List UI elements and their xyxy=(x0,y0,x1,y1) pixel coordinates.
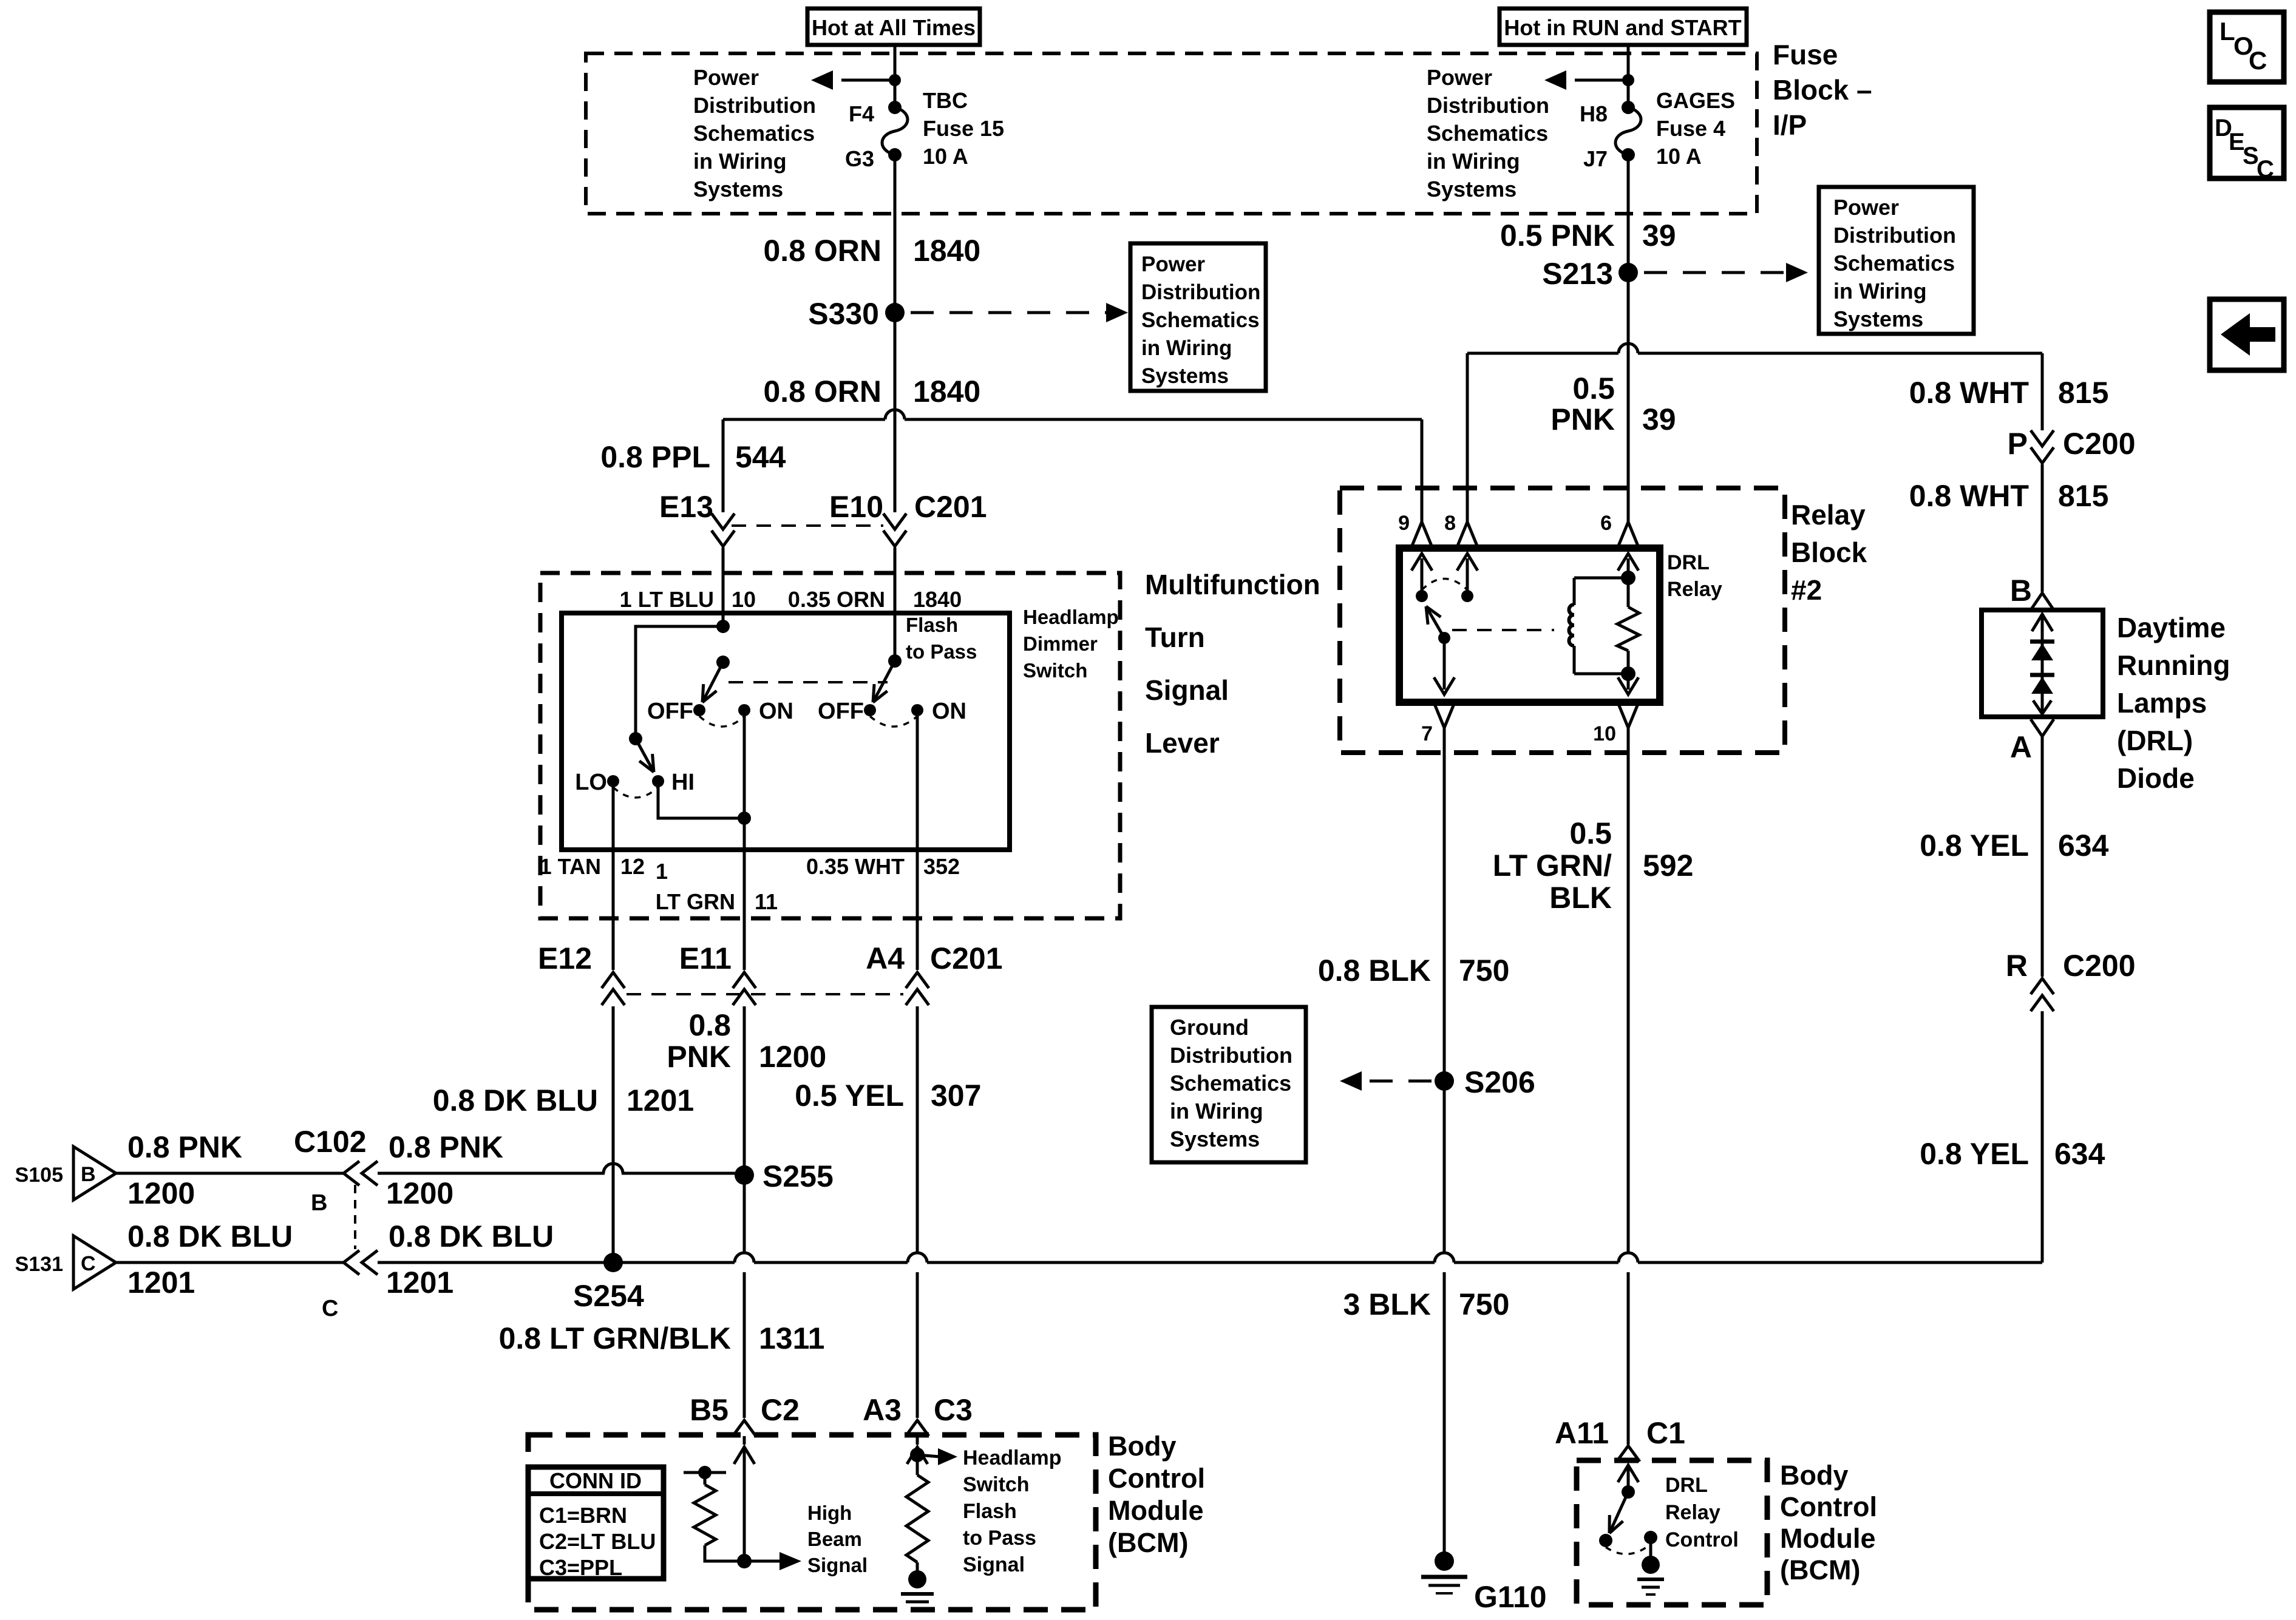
svg-text:0.8 YEL: 0.8 YEL xyxy=(1920,829,2029,863)
svg-text:352: 352 xyxy=(923,854,960,879)
svg-text:Distribution: Distribution xyxy=(1427,93,1549,118)
svg-text:Dimmer: Dimmer xyxy=(1023,632,1098,655)
svg-text:Control: Control xyxy=(1665,1528,1739,1551)
svg-text:S213: S213 xyxy=(1542,257,1613,291)
svg-text:Signal: Signal xyxy=(963,1553,1025,1576)
svg-text:0.5: 0.5 xyxy=(1572,371,1615,405)
svg-text:LO: LO xyxy=(575,770,607,795)
svg-text:J7: J7 xyxy=(1583,146,1608,171)
svg-text:0.8 PPL: 0.8 PPL xyxy=(600,440,710,474)
svg-text:LT GRN/: LT GRN/ xyxy=(1493,849,1612,883)
svg-text:Switch: Switch xyxy=(1023,659,1087,682)
svg-text:750: 750 xyxy=(1459,954,1509,988)
svg-text:C200: C200 xyxy=(2063,427,2136,461)
svg-text:B5: B5 xyxy=(690,1393,729,1427)
svg-text:0.8 DK BLU: 0.8 DK BLU xyxy=(433,1083,598,1117)
svg-text:Headlamp: Headlamp xyxy=(1023,606,1119,628)
svg-text:Lever: Lever xyxy=(1145,727,1220,759)
svg-text:C: C xyxy=(81,1252,96,1275)
svg-text:Power: Power xyxy=(1833,195,1899,220)
svg-text:Block –: Block – xyxy=(1773,74,1872,106)
svg-text:F4: F4 xyxy=(849,101,874,126)
svg-text:1200: 1200 xyxy=(386,1176,453,1210)
svg-text:A11: A11 xyxy=(1555,1416,1609,1450)
svg-text:S206: S206 xyxy=(1464,1065,1535,1099)
svg-text:B: B xyxy=(311,1190,327,1216)
svg-text:10: 10 xyxy=(732,587,756,612)
svg-text:Switch: Switch xyxy=(963,1473,1030,1496)
svg-text:Distribution: Distribution xyxy=(1141,280,1260,304)
svg-text:Flash: Flash xyxy=(963,1500,1017,1523)
svg-text:L: L xyxy=(2220,17,2235,46)
svg-text:TBC: TBC xyxy=(923,88,968,113)
svg-text:E13: E13 xyxy=(659,490,713,524)
svg-text:1 TAN: 1 TAN xyxy=(540,854,601,879)
svg-text:Schematics: Schematics xyxy=(1170,1071,1291,1096)
svg-text:1840: 1840 xyxy=(913,374,980,408)
svg-text:1200: 1200 xyxy=(759,1040,826,1074)
svg-text:Systems: Systems xyxy=(693,177,783,202)
svg-text:Relay: Relay xyxy=(1665,1501,1720,1524)
svg-text:OFF: OFF xyxy=(818,699,864,724)
svg-text:1311: 1311 xyxy=(759,1321,824,1355)
svg-text:DRL: DRL xyxy=(1665,1474,1708,1497)
svg-text:PNK: PNK xyxy=(667,1040,731,1074)
svg-text:Control: Control xyxy=(1108,1463,1205,1494)
svg-text:C: C xyxy=(322,1296,338,1321)
svg-text:3 BLK: 3 BLK xyxy=(1343,1287,1431,1321)
svg-text:0.8 WHT: 0.8 WHT xyxy=(1909,376,2029,410)
svg-text:815: 815 xyxy=(2058,479,2108,513)
svg-text:1201: 1201 xyxy=(627,1083,694,1117)
svg-text:OFF: OFF xyxy=(647,699,693,724)
svg-text:C200: C200 xyxy=(2063,949,2136,983)
svg-text:Hot in RUN and START: Hot in RUN and START xyxy=(1504,15,1741,40)
svg-text:C2=LT BLU: C2=LT BLU xyxy=(539,1529,656,1554)
svg-text:Block: Block xyxy=(1791,537,1867,568)
svg-text:0.35 ORN: 0.35 ORN xyxy=(788,587,885,612)
svg-text:Power: Power xyxy=(1141,252,1205,276)
svg-text:39: 39 xyxy=(1642,402,1676,436)
svg-text:Power: Power xyxy=(693,65,759,90)
svg-text:Signal: Signal xyxy=(807,1554,868,1576)
svg-text:H8: H8 xyxy=(1580,101,1608,126)
svg-text:Beam: Beam xyxy=(807,1528,862,1550)
svg-text:C201: C201 xyxy=(930,941,1003,975)
svg-text:Distribution: Distribution xyxy=(1170,1043,1292,1068)
svg-text:C: C xyxy=(2257,156,2274,183)
svg-text:Module: Module xyxy=(1108,1495,1203,1526)
svg-text:Relay: Relay xyxy=(1791,499,1866,530)
svg-text:C1: C1 xyxy=(1646,1416,1685,1450)
svg-text:to Pass: to Pass xyxy=(963,1527,1036,1550)
svg-text:C3: C3 xyxy=(934,1393,973,1427)
svg-text:0.8 DK BLU: 0.8 DK BLU xyxy=(389,1219,554,1253)
svg-text:0.5 YEL: 0.5 YEL xyxy=(795,1079,904,1113)
svg-text:in Wiring: in Wiring xyxy=(1170,1099,1263,1123)
svg-text:39: 39 xyxy=(1642,219,1676,252)
svg-text:544: 544 xyxy=(735,440,786,474)
svg-text:634: 634 xyxy=(2058,829,2109,863)
svg-text:Distribution: Distribution xyxy=(1833,223,1956,248)
svg-text:Fuse: Fuse xyxy=(1773,39,1838,70)
svg-text:(BCM): (BCM) xyxy=(1780,1554,1860,1585)
svg-text:Module: Module xyxy=(1780,1523,1875,1554)
svg-text:Schematics: Schematics xyxy=(693,121,815,146)
svg-text:11: 11 xyxy=(755,889,778,914)
svg-text:CONN ID: CONN ID xyxy=(549,1468,642,1493)
svg-text:0.35 WHT: 0.35 WHT xyxy=(806,854,905,879)
svg-text:S255: S255 xyxy=(763,1159,834,1193)
svg-text:815: 815 xyxy=(2058,376,2108,410)
svg-text:B: B xyxy=(2010,574,2032,608)
svg-text:Daytime: Daytime xyxy=(2117,612,2226,643)
svg-text:10: 10 xyxy=(1593,722,1616,745)
svg-text:634: 634 xyxy=(2054,1137,2105,1171)
svg-text:BLK: BLK xyxy=(1549,881,1612,915)
svg-text:S330: S330 xyxy=(808,297,879,331)
svg-text:in Wiring: in Wiring xyxy=(1833,279,1927,303)
svg-text:Schematics: Schematics xyxy=(1427,121,1548,146)
svg-text:S105: S105 xyxy=(15,1164,63,1187)
svg-text:G110: G110 xyxy=(1474,1580,1547,1614)
svg-text:Fuse 15: Fuse 15 xyxy=(923,116,1004,141)
svg-text:(DRL): (DRL) xyxy=(2117,725,2193,756)
svg-text:C: C xyxy=(2249,46,2267,75)
svg-text:0.8 PNK: 0.8 PNK xyxy=(127,1130,242,1164)
svg-text:0.8 YEL: 0.8 YEL xyxy=(1920,1137,2029,1171)
svg-text:12: 12 xyxy=(620,854,645,879)
svg-text:LT GRN: LT GRN xyxy=(656,889,735,914)
svg-text:0.5 PNK: 0.5 PNK xyxy=(1500,219,1615,252)
svg-text:HI: HI xyxy=(671,770,695,795)
svg-text:Distribution: Distribution xyxy=(693,93,816,118)
svg-text:to Pass: to Pass xyxy=(906,640,977,663)
svg-text:in Wiring: in Wiring xyxy=(1427,149,1520,174)
svg-text:Control: Control xyxy=(1780,1491,1877,1522)
svg-text:7: 7 xyxy=(1421,722,1433,745)
svg-text:C2: C2 xyxy=(761,1393,800,1427)
svg-text:6: 6 xyxy=(1600,512,1612,535)
svg-text:Turn: Turn xyxy=(1145,622,1205,653)
svg-text:Multifunction: Multifunction xyxy=(1145,569,1320,600)
svg-text:#2: #2 xyxy=(1791,574,1822,606)
svg-text:0.8: 0.8 xyxy=(688,1008,731,1042)
svg-text:DRL: DRL xyxy=(1667,551,1710,574)
svg-text:Fuse 4: Fuse 4 xyxy=(1656,116,1725,141)
svg-text:C102: C102 xyxy=(294,1125,367,1159)
svg-text:10 A: 10 A xyxy=(923,144,968,169)
svg-text:0.8 ORN: 0.8 ORN xyxy=(763,234,881,268)
svg-text:750: 750 xyxy=(1459,1287,1509,1321)
svg-text:592: 592 xyxy=(1643,849,1693,883)
svg-text:8: 8 xyxy=(1444,512,1456,535)
svg-text:S254: S254 xyxy=(573,1279,644,1313)
svg-text:Systems: Systems xyxy=(1141,364,1229,388)
svg-text:Lamps: Lamps xyxy=(2117,687,2207,719)
svg-text:E12: E12 xyxy=(538,941,592,975)
svg-text:0.8 PNK: 0.8 PNK xyxy=(389,1130,503,1164)
svg-text:A4: A4 xyxy=(866,941,905,975)
svg-text:GAGES: GAGES xyxy=(1656,88,1735,113)
svg-text:C1=BRN: C1=BRN xyxy=(539,1503,627,1528)
svg-text:1: 1 xyxy=(656,859,668,884)
svg-text:0.8 WHT: 0.8 WHT xyxy=(1909,479,2029,513)
svg-text:1201: 1201 xyxy=(127,1266,195,1300)
svg-text:1201: 1201 xyxy=(386,1266,453,1300)
svg-text:ON: ON xyxy=(759,699,793,724)
svg-text:Headlamp: Headlamp xyxy=(963,1446,1062,1469)
svg-text:I/P: I/P xyxy=(1773,109,1807,141)
svg-text:R: R xyxy=(2006,949,2028,983)
svg-text:in Wiring: in Wiring xyxy=(1141,336,1232,360)
svg-text:Schematics: Schematics xyxy=(1833,251,1955,276)
svg-text:10 A: 10 A xyxy=(1656,144,1702,169)
svg-text:Body: Body xyxy=(1108,1431,1177,1462)
svg-text:0.8 BLK: 0.8 BLK xyxy=(1318,954,1431,988)
svg-text:0.8 LT GRN/BLK: 0.8 LT GRN/BLK xyxy=(499,1321,731,1355)
svg-text:C3=PPL: C3=PPL xyxy=(539,1555,622,1580)
svg-text:9: 9 xyxy=(1398,512,1410,535)
svg-text:Body: Body xyxy=(1780,1460,1849,1491)
svg-text:1200: 1200 xyxy=(127,1176,195,1210)
svg-text:0.8 DK BLU: 0.8 DK BLU xyxy=(127,1219,293,1253)
svg-text:Hot at All Times: Hot at All Times xyxy=(812,15,976,40)
svg-text:ON: ON xyxy=(932,699,966,724)
svg-text:Ground: Ground xyxy=(1170,1015,1249,1040)
svg-text:Running: Running xyxy=(2117,649,2230,681)
svg-text:Signal: Signal xyxy=(1145,674,1229,706)
svg-text:A: A xyxy=(2010,730,2032,764)
svg-text:E11: E11 xyxy=(679,941,732,975)
svg-text:G3: G3 xyxy=(845,146,874,171)
svg-text:High: High xyxy=(807,1502,852,1524)
svg-text:Systems: Systems xyxy=(1427,177,1517,202)
svg-text:1840: 1840 xyxy=(913,234,980,268)
svg-text:B: B xyxy=(81,1163,96,1186)
svg-text:1 LT BLU: 1 LT BLU xyxy=(620,587,714,612)
svg-text:0.5: 0.5 xyxy=(1569,816,1612,850)
svg-text:PNK: PNK xyxy=(1550,402,1615,436)
svg-text:S131: S131 xyxy=(15,1253,63,1276)
svg-text:A3: A3 xyxy=(863,1393,902,1427)
svg-text:0.8 ORN: 0.8 ORN xyxy=(763,374,881,408)
svg-text:Power: Power xyxy=(1427,65,1492,90)
svg-text:Schematics: Schematics xyxy=(1141,308,1260,332)
svg-text:P: P xyxy=(2008,427,2028,461)
svg-text:E10: E10 xyxy=(829,490,883,524)
svg-text:in Wiring: in Wiring xyxy=(693,149,787,174)
svg-text:Systems: Systems xyxy=(1170,1127,1260,1151)
svg-text:Flash: Flash xyxy=(906,614,958,636)
svg-text:307: 307 xyxy=(931,1079,981,1113)
svg-text:C201: C201 xyxy=(914,490,987,524)
svg-text:Relay: Relay xyxy=(1667,578,1722,601)
svg-text:Diode: Diode xyxy=(2117,762,2195,794)
svg-text:1840: 1840 xyxy=(913,587,962,612)
svg-text:Systems: Systems xyxy=(1833,307,1923,331)
svg-text:(BCM): (BCM) xyxy=(1108,1527,1188,1558)
